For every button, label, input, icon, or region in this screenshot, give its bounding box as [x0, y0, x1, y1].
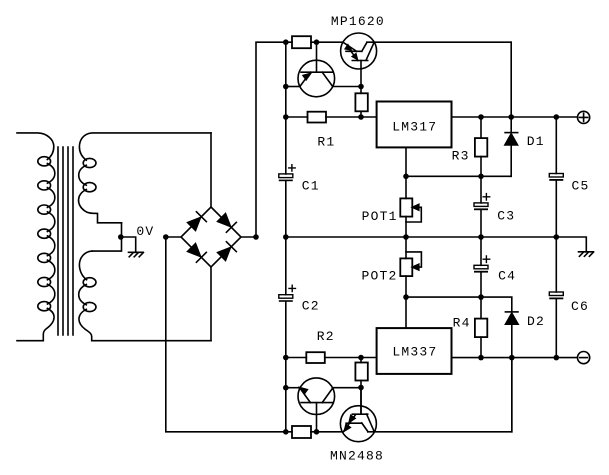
node resistor bottom on IN line: [358, 114, 364, 120]
terminal + output: [578, 111, 590, 123]
svg-text:POT2: POT2: [362, 268, 398, 283]
wire secondary top to bridge: [210, 133, 212, 207]
node C6 bottom: [554, 355, 560, 361]
wire driver emitter left: [286, 86, 300, 88]
wire LM337 ADJ pin up: [405, 297, 407, 328]
node ADJ337-R4 junction: [478, 294, 484, 300]
IC LM337: [377, 328, 452, 374]
capacitor C6: [549, 237, 563, 358]
node 0V tap dot: [118, 234, 124, 240]
wire 0V rail: [286, 237, 587, 252]
potentiometer POT2: [400, 237, 421, 297]
resistor R1: [308, 112, 327, 123]
node C5 top: [554, 114, 560, 120]
wire bottom rail right to corner up: [368, 358, 512, 432]
wire LM317 ADJ pin down: [405, 147, 407, 198]
node R1 junction: [283, 114, 289, 120]
wire bridge bottom to secondary bottom: [210, 267, 212, 341]
wire top rail MP1620 to corner: [367, 41, 511, 43]
node top rail right: [314, 39, 320, 45]
wire bottom driver collector right: [333, 387, 361, 389]
bridge diode left-top: [188, 212, 207, 231]
svg-text:MP1620: MP1620: [331, 14, 385, 29]
transistor driver bottom (NPN): [298, 378, 335, 432]
capacitor C5: [549, 117, 563, 237]
svg-text:R1: R1: [317, 135, 335, 150]
svg-text:LM337: LM337: [392, 344, 437, 359]
node 0V POT: [403, 234, 409, 240]
wire IN line left: [286, 116, 308, 118]
svg-text:C3: C3: [497, 209, 515, 224]
node bottom emitter junction: [283, 385, 289, 391]
potentiometer POT1: [400, 198, 421, 237]
wire IN337 line left: [286, 357, 307, 359]
resistor top sense (unlabelled): [292, 36, 311, 48]
wire driver collector right: [333, 86, 361, 88]
svg-text:C4: C4: [498, 269, 516, 284]
resistor base drive bottom (vertical): [355, 358, 367, 415]
node emitter-rail junction: [283, 84, 289, 90]
transformer secondary centre tap step: [92, 223, 121, 251]
diode D1: [505, 42, 518, 176]
wire LM317 output line: [452, 116, 578, 118]
svg-text:C5: C5: [572, 179, 590, 194]
resistor R2: [306, 352, 325, 363]
transformer secondary top winding: [79, 133, 211, 223]
wire bottom driver emitter left: [286, 387, 300, 389]
node bridge minus: [163, 234, 169, 240]
transformer primary winding: [17, 133, 55, 341]
resistor R4: [475, 297, 487, 358]
svg-text:LM317: LM317: [392, 119, 437, 134]
node bottom rail base junction: [314, 429, 320, 435]
svg-text:C6: C6: [571, 299, 589, 314]
svg-text:0V: 0V: [136, 224, 154, 239]
svg-text:D2: D2: [527, 314, 545, 329]
transistor driver top (PNP): [298, 42, 335, 97]
resistor R3: [475, 117, 487, 176]
node drive resistor bottom: [358, 385, 364, 391]
svg-text:C2: C2: [302, 299, 320, 314]
node ADJ337 rail left: [403, 294, 409, 300]
node ADJ rail left: [403, 174, 409, 180]
bridge diode top-right: [218, 214, 237, 233]
capacitor C2: [279, 285, 296, 432]
bridge diode bottom-right: [218, 242, 237, 261]
node 0V C3C4: [478, 234, 484, 240]
node 0V C1C2: [283, 234, 289, 240]
bridge diode left-bottom: [188, 244, 207, 263]
bridge rectifier diamond: [181, 207, 241, 267]
node R4 bottom: [478, 355, 484, 361]
node bridge plus corner: [253, 234, 259, 240]
node D1 top: [508, 114, 514, 120]
node R3 top: [478, 114, 484, 120]
wire bridge plus output up to top rail: [241, 42, 292, 237]
node D2 bottom: [509, 355, 515, 361]
wire ADJ rail: [406, 175, 511, 177]
wire 0V tap to ground: [121, 237, 136, 252]
node bottom vert resistor top: [358, 355, 364, 361]
svg-text:R4: R4: [453, 315, 471, 330]
capacitor C4: [474, 237, 490, 297]
node bottom rail left: [283, 429, 289, 435]
wire IN line right to LM317: [326, 116, 377, 118]
svg-text:R2: R2: [317, 329, 335, 344]
node R2 left junction: [283, 355, 289, 361]
capacitor C3: [474, 176, 490, 237]
wire top rail right of sense resistor: [311, 41, 343, 43]
IC LM317: [377, 102, 452, 148]
svg-text:MN2488: MN2488: [330, 448, 384, 463]
resistor base drive top (vertical): [355, 87, 367, 118]
transformer core: [58, 147, 73, 335]
resistor bottom sense (unlabelled): [292, 426, 311, 438]
svg-text:D1: D1: [527, 134, 545, 149]
wire bridge minus output down to bottom rail: [166, 237, 292, 432]
transistor MN2488: [340, 388, 376, 442]
wire LM337 output line: [452, 357, 578, 359]
wire ADJ337 rail: [406, 297, 512, 311]
svg-text:R3: R3: [452, 149, 470, 164]
svg-text:POT1: POT1: [362, 209, 398, 224]
ground (right end of 0V rail): [579, 252, 594, 256]
svg-text:C1: C1: [302, 178, 320, 193]
capacitor C1: [279, 165, 295, 295]
diode D2: [505, 312, 518, 432]
node top rail left: [283, 39, 289, 45]
node ADJ-R3 junction: [478, 174, 484, 180]
transformer secondary bottom winding: [79, 251, 211, 341]
node 0V C5C6: [554, 234, 560, 240]
wire raw+ vertical x=286 top: [285, 42, 287, 174]
wire bottom rail right of sense resistor: [311, 431, 342, 433]
terminal - output: [578, 352, 590, 364]
node collector-base junction: [358, 84, 364, 90]
transistor MP1620: [341, 33, 377, 87]
wire IN337 line right to LM337: [325, 357, 377, 359]
ground (0V): [129, 252, 144, 256]
